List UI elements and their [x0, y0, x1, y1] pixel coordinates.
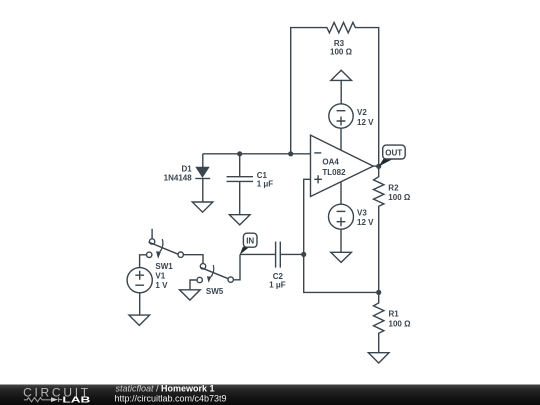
- svg-text:R2: R2: [388, 183, 399, 192]
- svg-text:1N4148: 1N4148: [164, 173, 193, 182]
- svg-text:C1: C1: [257, 171, 268, 180]
- svg-text:1 V: 1 V: [155, 281, 168, 290]
- svg-text:12 V: 12 V: [357, 118, 374, 127]
- svg-text:LAB: LAB: [62, 394, 90, 404]
- svg-text:V1: V1: [155, 272, 165, 281]
- svg-text:V2: V2: [357, 108, 367, 117]
- svg-text:R1: R1: [389, 310, 400, 319]
- svg-text:1 μF: 1 μF: [257, 180, 274, 189]
- svg-text:OUT: OUT: [385, 148, 402, 157]
- svg-text:D1: D1: [181, 164, 192, 173]
- svg-text:TL082: TL082: [322, 168, 346, 177]
- svg-text:100 Ω: 100 Ω: [330, 47, 353, 56]
- svg-text:100 Ω: 100 Ω: [388, 193, 411, 202]
- svg-text:SW5: SW5: [206, 287, 224, 296]
- svg-text:IN: IN: [246, 237, 254, 246]
- svg-text:1 μF: 1 μF: [269, 280, 286, 289]
- svg-text:http://circuitlab.com/c4b73t9: http://circuitlab.com/c4b73t9: [115, 394, 227, 404]
- svg-text:100 Ω: 100 Ω: [389, 319, 412, 328]
- svg-text:SW1: SW1: [155, 262, 173, 271]
- svg-text:staticfloat / Homework 1: staticfloat / Homework 1: [116, 384, 215, 394]
- svg-text:V3: V3: [357, 209, 367, 218]
- svg-text:12 V: 12 V: [357, 218, 374, 227]
- svg-text:OA4: OA4: [322, 158, 339, 167]
